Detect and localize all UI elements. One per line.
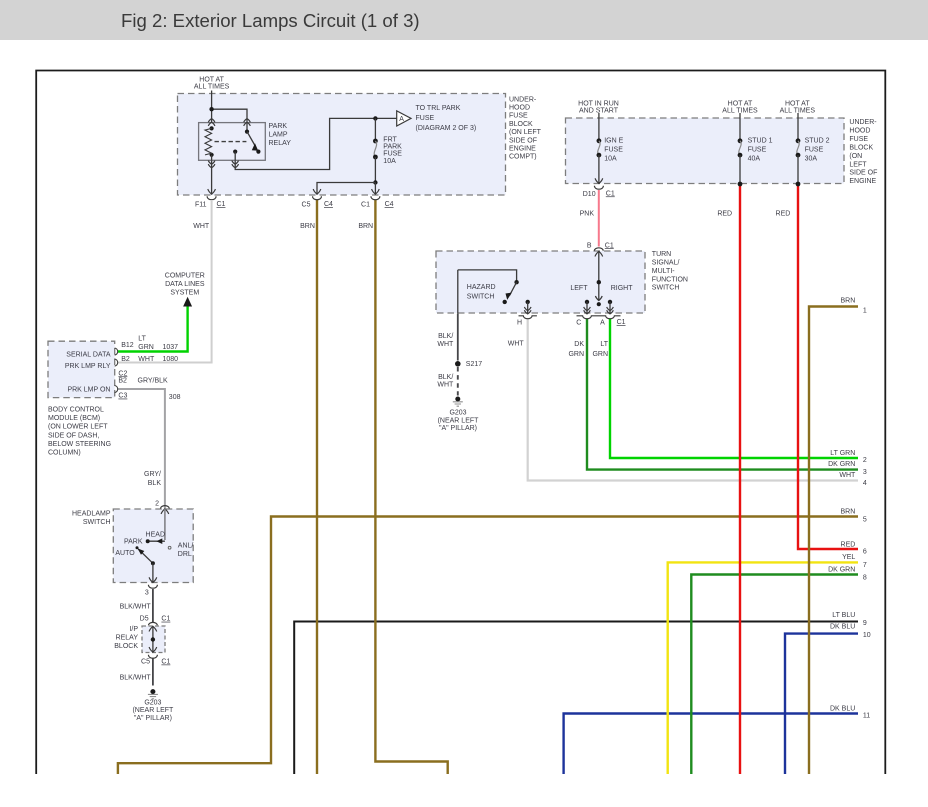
svg-text:4: 4 (863, 480, 867, 487)
svg-text:SERIAL DATA: SERIAL DATA (66, 352, 111, 359)
svg-text:C5: C5 (302, 202, 311, 209)
svg-text:D5: D5 (140, 616, 149, 623)
label pin B12 and circuit 1037 (121, 336, 178, 351)
label row 4 WHT (839, 472, 867, 487)
svg-text:(NEAR LEFT: (NEAR LEFT (438, 417, 480, 424)
svg-text:MULTI-: MULTI- (652, 268, 675, 275)
label row 5 BRN (841, 508, 867, 523)
wire BRN from C5 down off page (316, 200, 318, 774)
wire RED from STUD 2 fuse to right edge row 6 (798, 184, 858, 549)
headlamp switch AUTO contact and arm (136, 546, 155, 582)
label row 2 LT GRN (830, 450, 867, 464)
svg-text:1: 1 (863, 307, 867, 314)
svg-text:LT GRN: LT GRN (830, 450, 855, 457)
svg-text:LAMP: LAMP (269, 132, 288, 139)
svg-text:I/P: I/P (129, 626, 138, 633)
svg-text:HOOD: HOOD (509, 105, 530, 112)
svg-text:LT: LT (138, 336, 146, 343)
svg-text:SWITCH: SWITCH (467, 294, 495, 301)
wire BLK/WHT hazard switch to S217 (457, 314, 459, 361)
label pnk wire (580, 210, 595, 217)
svg-text:WHT: WHT (138, 356, 155, 363)
svg-text:RELAY: RELAY (269, 140, 292, 147)
svg-text:B12: B12 (121, 342, 134, 349)
park lamp relay box (199, 123, 266, 161)
svg-text:WHT: WHT (437, 341, 454, 348)
label i/p relay block (114, 626, 138, 650)
svg-text:BLK/WHT: BLK/WHT (120, 603, 152, 610)
label row 11 DK BLU (830, 706, 870, 720)
wire WHT 1080 from F11 to BCM PRK LMP RLY (118, 201, 212, 363)
label hot at all times (stud 2) (780, 101, 816, 115)
svg-text:ENGINE: ENGINE (509, 146, 536, 153)
label connector C5 C4 (302, 201, 334, 209)
svg-text:(NEAR LEFT: (NEAR LEFT (132, 707, 174, 714)
label ground G203 hazard (438, 410, 480, 432)
wire YEL row 7 (668, 562, 858, 774)
svg-text:C1: C1 (161, 616, 170, 623)
label pin B2 and circuit 1080 (121, 356, 178, 363)
wire LT BLU row 9 (drawn black) (294, 622, 858, 775)
svg-text:B: B (587, 242, 592, 249)
svg-text:BELOW STEERING: BELOW STEERING (48, 441, 111, 448)
svg-text:DK BLU: DK BLU (830, 706, 855, 713)
relay coil pin arrow (up) (208, 119, 215, 126)
wire BRN from C1 down and right off page (375, 200, 447, 774)
fuse IGN E 10A (597, 138, 602, 183)
svg-text:RED: RED (717, 210, 732, 217)
connector D5/C1 entry dome and arrow (149, 622, 158, 631)
label connector C2 (118, 370, 127, 377)
svg-text:(ON LEFT: (ON LEFT (509, 129, 542, 136)
svg-text:PRK LMP ON: PRK LMP ON (67, 387, 110, 394)
svg-text:C1: C1 (606, 190, 615, 197)
svg-text:DK: DK (574, 341, 584, 348)
label body control module (48, 407, 111, 457)
svg-text:LEFT: LEFT (570, 285, 588, 292)
label frt park fuse 10a (383, 137, 402, 165)
label connector D10 C1 (583, 190, 615, 197)
svg-text:DATA LINES: DATA LINES (165, 281, 205, 288)
relay coil-switch dashed link (215, 141, 247, 143)
svg-text:GRY/BLK: GRY/BLK (138, 378, 169, 385)
svg-text:FUSE: FUSE (805, 146, 824, 153)
svg-text:B2: B2 (121, 356, 130, 363)
label pin B2 gry/blk (118, 378, 168, 385)
turn signal / multi-function switch dashed box (436, 251, 645, 313)
wire RED from STUD 1 fuse down off page (739, 184, 741, 774)
svg-text:10: 10 (863, 632, 871, 639)
IGN E fuse feed wire (598, 113, 600, 141)
label lt grn wire (A) (592, 341, 608, 358)
wire BRN row 1 right edge down off page (809, 307, 858, 775)
BCM pin B2 prk lmp rly (115, 359, 118, 366)
svg-text:STUD 2: STUD 2 (805, 137, 830, 144)
headlamp switch dashed box (113, 509, 193, 583)
svg-text:TO TRL PARK: TO TRL PARK (416, 105, 461, 112)
wire DK GRN from C to right edge row 3 (587, 319, 858, 470)
svg-text:(DIAGRAM 2 OF 3): (DIAGRAM 2 OF 3) (416, 125, 477, 132)
I/P relay block internal wire (149, 626, 157, 652)
svg-text:BLOCK: BLOCK (509, 121, 533, 128)
wire hot at all times feed to park lamp relay (209, 91, 247, 123)
svg-text:BLOCK: BLOCK (114, 643, 138, 650)
svg-text:G203: G203 (449, 410, 466, 417)
svg-text:FUSE: FUSE (383, 151, 402, 158)
connector 3 exit arrow and cup (148, 577, 158, 588)
svg-text:UNDER-: UNDER- (509, 96, 537, 103)
headlamp switch internal circuit (146, 509, 165, 544)
label blk/wht wire (hazard) (437, 333, 454, 348)
node junction below FRT PARK FUSE (317, 180, 378, 194)
svg-text:3: 3 (145, 590, 149, 597)
svg-text:HOT AT: HOT AT (199, 77, 224, 84)
svg-text:HOT AT: HOT AT (785, 101, 810, 108)
relay coil output arrow (down) and wire to F11 (208, 160, 215, 194)
svg-text:C1: C1 (161, 659, 170, 666)
svg-text:8: 8 (863, 574, 867, 581)
label left right (570, 285, 633, 292)
svg-text:HAZARD: HAZARD (467, 284, 496, 291)
svg-text:D10: D10 (583, 191, 596, 198)
svg-text:ALL TIMES: ALL TIMES (722, 108, 758, 115)
svg-text:C1: C1 (617, 319, 626, 326)
svg-text:C1: C1 (217, 201, 226, 208)
svg-text:BODY CONTROL: BODY CONTROL (48, 407, 104, 414)
svg-text:DK GRN: DK GRN (828, 566, 855, 573)
label hot at all times (stud 1) (722, 101, 758, 115)
label pin 3 (145, 590, 149, 597)
relay switch arm (245, 123, 261, 154)
svg-text:WHT: WHT (508, 340, 525, 347)
relay switch output arrow (down) and wire to trailer fuse node (232, 118, 397, 169)
computer data lines system arrow (184, 298, 191, 306)
svg-text:SIDE OF DASH,: SIDE OF DASH, (48, 432, 99, 439)
svg-text:BRN: BRN (841, 508, 856, 515)
underhood fuse block (left) dashed box (178, 94, 506, 196)
diagram outer border (no bottom edge) (36, 71, 885, 775)
svg-text:LEFT: LEFT (849, 161, 867, 168)
svg-text:FUSE: FUSE (416, 115, 435, 122)
label red wire (stud 2) (776, 210, 791, 217)
label red wire (stud 1) (717, 210, 732, 217)
splice S217 (455, 361, 461, 367)
svg-text:LT BLU: LT BLU (832, 612, 855, 619)
svg-text:5: 5 (863, 516, 867, 523)
headlamp switch ANL/DRL contact (168, 546, 171, 549)
wire PNK from D10 to B (598, 190, 600, 247)
svg-text:FUSE: FUSE (604, 146, 623, 153)
svg-text:HEADLAMP: HEADLAMP (72, 511, 111, 518)
label row 8 DK GRN (828, 566, 867, 581)
svg-text:G203: G203 (144, 699, 161, 706)
label splice S217 (466, 361, 482, 368)
svg-text:RIGHT: RIGHT (611, 285, 634, 292)
svg-text:FUSE: FUSE (509, 113, 528, 120)
svg-text:B2: B2 (118, 378, 127, 385)
wire BLK/WHT headlamp switch to I/P relay block (152, 589, 154, 622)
svg-text:FUNCTION: FUNCTION (652, 276, 688, 283)
turn signal LEFT contact C (584, 300, 591, 314)
svg-text:SIDE OF: SIDE OF (509, 137, 537, 144)
svg-text:(ON: (ON (849, 153, 862, 160)
svg-text:WHT: WHT (437, 382, 454, 389)
svg-text:A: A (600, 320, 605, 327)
svg-text:IGN E: IGN E (604, 137, 623, 144)
label BCM pins (65, 352, 111, 394)
STUD 1 fuse feed wire (739, 113, 741, 141)
label underhood fuse block (left) (509, 96, 542, 160)
label connector B C1 (587, 242, 614, 249)
svg-text:BRN: BRN (300, 223, 315, 230)
svg-text:"A" PILLAR): "A" PILLAR) (439, 425, 477, 432)
svg-text:HOT IN RUN: HOT IN RUN (578, 101, 619, 108)
label row 6 RED (841, 541, 867, 555)
svg-text:WHT: WHT (193, 223, 210, 230)
svg-text:PARK: PARK (269, 123, 288, 130)
label blk/wht wire (S217 to G203) (437, 374, 454, 388)
svg-text:ANL/: ANL/ (178, 543, 194, 550)
wire BRN row 5 to lower left off page (118, 517, 858, 775)
label turn signal multifunction switch (652, 251, 688, 292)
svg-text:YEL: YEL (842, 554, 855, 561)
label underhood fuse block (right) (849, 119, 877, 185)
fuse STUD 2 30A (796, 138, 801, 186)
svg-text:FRT: FRT (383, 137, 397, 144)
svg-text:9: 9 (863, 620, 867, 627)
svg-text:6: 6 (863, 548, 867, 555)
label WHT wire (193, 223, 210, 230)
wire DK BLU row 11 (564, 714, 858, 775)
svg-text:COMPT): COMPT) (509, 154, 537, 161)
connector F11/C1 exit arrow and cup (207, 189, 217, 200)
ground G203 (near left A pillar, headlamp) (148, 689, 158, 699)
svg-text:A: A (399, 116, 404, 123)
node junction at trailer fuse tap (373, 116, 377, 120)
svg-text:FUSE: FUSE (748, 146, 767, 153)
svg-text:HEAD: HEAD (146, 532, 165, 539)
wire WHT from H to right edge row 4 (528, 319, 858, 481)
svg-text:1080: 1080 (163, 356, 179, 363)
svg-text:(ON LOWER LEFT: (ON LOWER LEFT (48, 424, 108, 431)
label ign e fuse 10a (604, 137, 623, 162)
svg-text:PARK: PARK (383, 144, 402, 151)
label computer data lines system (165, 272, 205, 296)
svg-text:1037: 1037 (163, 344, 179, 351)
svg-text:2: 2 (155, 501, 159, 508)
connector 2 entry dome and arrow (headlamp switch) (161, 506, 170, 514)
STUD 2 fuse feed wire (797, 113, 799, 141)
svg-text:MODULE (BCM): MODULE (BCM) (48, 415, 100, 422)
label hazard switch (467, 284, 496, 301)
wire BLK/WHT S217 to G203 (dashed) (457, 367, 459, 396)
label wht wire (H) (508, 340, 525, 347)
svg-text:S217: S217 (466, 361, 482, 368)
svg-text:"A" PILLAR): "A" PILLAR) (134, 715, 172, 722)
svg-text:10A: 10A (383, 158, 396, 165)
svg-text:RED: RED (841, 541, 856, 548)
svg-text:ENGINE: ENGINE (849, 178, 876, 185)
label hot at all times (left) (194, 77, 230, 91)
svg-text:LT: LT (600, 341, 608, 348)
svg-text:308: 308 (169, 394, 181, 401)
svg-text:HOOD: HOOD (849, 127, 870, 134)
svg-text:C: C (576, 320, 581, 327)
svg-text:STUD 1: STUD 1 (748, 137, 773, 144)
label ground G203 headlamp (132, 699, 174, 721)
label row 7 YEL (842, 554, 867, 569)
label connector F11 C1 (195, 201, 226, 209)
svg-text:ALL TIMES: ALL TIMES (780, 108, 816, 115)
relay switch output contact (233, 150, 237, 161)
svg-text:PNK: PNK (580, 210, 595, 217)
label row 10 DK BLU (830, 624, 871, 640)
label row 3 DK GRN (828, 461, 867, 476)
svg-text:BLK: BLK (148, 480, 162, 487)
svg-text:BRN: BRN (358, 223, 373, 230)
relay switch pin arrow (up) (244, 119, 251, 126)
label row 1 BRN (841, 298, 867, 315)
svg-text:BLK/: BLK/ (438, 333, 453, 340)
label stud 1 fuse 40a (748, 137, 773, 162)
svg-text:2: 2 (863, 457, 867, 464)
label connector C5 C1 (141, 659, 170, 666)
wire DK GRN row 8 (691, 575, 858, 775)
svg-text:DK GRN: DK GRN (828, 461, 855, 468)
wire LT GRN 1037 serial data to computer data lines (118, 305, 188, 352)
svg-text:C3: C3 (118, 393, 127, 400)
label blk/wht wire (to G203) (120, 675, 152, 682)
label BRN wire (C5) (300, 223, 315, 230)
BCM pin B12 serial data (115, 348, 118, 355)
svg-text:H: H (517, 320, 522, 327)
svg-text:C5: C5 (141, 659, 150, 666)
label pins H C A C1 (517, 319, 626, 327)
fuse FRT PARK FUSE 10A (373, 118, 378, 182)
svg-text:COMPUTER: COMPUTER (165, 272, 205, 279)
svg-text:PRK LMP RLY: PRK LMP RLY (65, 363, 111, 370)
svg-text:HOT AT: HOT AT (728, 101, 753, 108)
svg-text:BLK/WHT: BLK/WHT (120, 675, 152, 682)
connector bracket under turn signal box (C and A, C1) (577, 316, 621, 319)
svg-text:TURN: TURN (652, 251, 671, 258)
label blk/wht wire (headlamp) (120, 603, 152, 610)
svg-text:BLK/: BLK/ (438, 374, 453, 381)
connector C1/C4 exit arrow and cup (370, 189, 380, 200)
connector C5/C1 exit cup (I/P relay block) (148, 655, 158, 658)
svg-text:SWITCH: SWITCH (83, 519, 111, 526)
turn signal RIGHT contact A (607, 300, 614, 314)
label hot in run and start (578, 101, 619, 115)
label park lamp relay (269, 123, 292, 147)
label dk grn wire (C) (568, 341, 584, 358)
svg-text:PARK: PARK (124, 539, 143, 546)
label connector C3 and circuit 308 (118, 393, 180, 401)
connector bracket under turn signal box (H) (519, 316, 537, 319)
svg-text:F11: F11 (195, 202, 207, 209)
ground G203 (near left A pillar, hazard) (453, 397, 463, 407)
svg-text:SIDE OF: SIDE OF (849, 170, 877, 177)
svg-text:DK BLU: DK BLU (830, 624, 855, 631)
label headlamp switch (72, 511, 111, 527)
svg-text:SIGNAL/: SIGNAL/ (652, 260, 680, 267)
wire DK BLU row 10 (785, 634, 858, 774)
fuse STUD 1 40A (738, 138, 743, 186)
I/P relay block dashed box (142, 626, 165, 653)
svg-text:C1: C1 (605, 242, 614, 249)
connector D10/C1 exit arrow and cup (594, 178, 604, 189)
svg-text:GRN: GRN (592, 351, 608, 358)
svg-text:GRN: GRN (568, 351, 584, 358)
hazard switch arm (458, 270, 519, 314)
svg-text:AUTO: AUTO (115, 550, 135, 557)
underhood fuse block (right) dashed box (566, 118, 845, 184)
svg-text:WHT: WHT (839, 472, 856, 479)
svg-text:SYSTEM: SYSTEM (170, 290, 199, 297)
svg-text:BRN: BRN (841, 298, 856, 305)
svg-text:DRL: DRL (178, 551, 192, 558)
body control module dashed box (48, 341, 115, 397)
svg-text:GRN: GRN (138, 344, 154, 351)
svg-text:C2: C2 (118, 370, 127, 377)
triangle connector A to trailer park fuse (397, 111, 411, 126)
svg-text:C1: C1 (361, 202, 370, 209)
svg-text:7: 7 (863, 562, 867, 569)
svg-text:3: 3 (863, 469, 867, 476)
svg-text:Fig 2: Exterior Lamps Circuit: Fig 2: Exterior Lamps Circuit (1 of 3) (121, 10, 420, 31)
svg-text:RELAY: RELAY (116, 634, 139, 641)
turn signal switch common arm (595, 251, 602, 306)
wire LT GRN from A to right edge row 2 (610, 319, 858, 458)
label pin 2 (155, 501, 159, 508)
label connector C1 C4 (361, 201, 394, 209)
svg-text:40A: 40A (748, 155, 761, 162)
svg-text:ALL TIMES: ALL TIMES (194, 84, 230, 91)
svg-text:GRY/: GRY/ (144, 471, 161, 478)
label to trl park fuse (416, 105, 477, 132)
svg-text:C4: C4 (324, 201, 333, 208)
connector B/C1 entry dome and arrow (594, 248, 603, 257)
label head park auto anl/drl (115, 532, 193, 559)
svg-text:SWITCH: SWITCH (652, 285, 680, 292)
svg-text:C4: C4 (385, 201, 394, 208)
svg-text:COLUMN): COLUMN) (48, 450, 81, 457)
wire BLK/WHT I/P relay block to G203 (152, 659, 154, 686)
connector C5/C4 exit arrow and cup (312, 189, 322, 200)
svg-text:10A: 10A (604, 155, 617, 162)
wire GRY/BLK 308 BCM to headlamp switch (118, 389, 165, 509)
label gry/blk wire (144, 471, 161, 487)
label stud 2 fuse 30a (805, 137, 830, 162)
label BRN wire (C1) (358, 223, 373, 230)
title bar (0, 0, 928, 40)
svg-text:UNDER-: UNDER- (849, 119, 877, 126)
BCM pin B2 prk lmp on (115, 386, 118, 393)
label row 9 LT BLU (832, 612, 867, 627)
svg-text:RED: RED (776, 210, 791, 217)
svg-text:30A: 30A (805, 155, 818, 162)
svg-text:FUSE: FUSE (849, 136, 868, 143)
label connector D5 C1 (140, 616, 171, 623)
hazard switch H contact (524, 300, 531, 314)
svg-text:BLOCK: BLOCK (849, 144, 873, 151)
relay coil winding (205, 126, 214, 160)
svg-text:11: 11 (863, 713, 870, 720)
svg-text:AND START: AND START (579, 108, 619, 115)
